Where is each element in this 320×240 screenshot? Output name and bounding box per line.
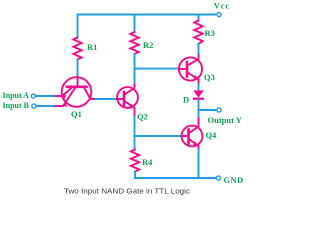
svg-text:Two Input NAND Gate in TTL Log: Two Input NAND Gate in TTL Logic — [64, 187, 190, 196]
wire R2 bottom to Q2 collector — [134, 54, 136, 85]
wire R4 bottom lead — [134, 172, 136, 179]
wire R2 Q2 node to Q3 base — [135, 68, 181, 70]
svg-text:Q3: Q3 — [204, 72, 215, 82]
resistor R4 — [131, 150, 139, 172]
wire output branch — [199, 109, 217, 111]
wire R1 bottom to Q1 base — [77, 60, 79, 79]
wire R1 top lead — [77, 15, 79, 38]
wire top rail Vcc — [78, 14, 217, 16]
Vcc terminal — [217, 12, 221, 16]
wire Input B to Q1 emitter2 — [36, 105, 56, 107]
input terminal A — [31, 94, 35, 98]
wire Q3 emitter to diode D — [198, 85, 200, 91]
wire Q2 emitter down to R4 — [134, 117, 136, 150]
diode D — [193, 90, 204, 98]
svg-text:R2: R2 — [143, 40, 153, 50]
wire ground rail — [135, 177, 216, 179]
transistor Q1 multi-emitter — [56, 77, 96, 107]
svg-text:R3: R3 — [205, 28, 215, 38]
wire Q4 emitter to ground rail — [198, 150, 200, 179]
svg-text:Q1: Q1 — [71, 109, 82, 119]
wire node to Q4 base — [135, 135, 182, 137]
transistor Q4 — [182, 119, 203, 150]
resistor R2 — [130, 32, 138, 54]
wire R3 top lead — [198, 15, 200, 21]
svg-text:Q4: Q4 — [206, 130, 218, 140]
svg-text:D: D — [183, 94, 189, 104]
svg-text:R1: R1 — [87, 42, 97, 52]
input terminal B — [32, 104, 36, 108]
svg-text:Input B: Input B — [3, 101, 30, 110]
svg-text:Output Y: Output Y — [208, 115, 242, 125]
svg-text:R4: R4 — [142, 157, 153, 167]
svg-text:Vcc: Vcc — [214, 1, 230, 11]
svg-text:Q2: Q2 — [137, 111, 148, 121]
transistor Q3 — [179, 56, 202, 85]
wire R2 top lead — [134, 15, 136, 33]
svg-text:Input A: Input A — [3, 91, 30, 100]
wire Input A to Q1 emitter1 — [36, 95, 56, 97]
output terminal Y — [217, 108, 221, 112]
wire Q1 collector to Q2 base — [96, 98, 118, 100]
resistor R1 — [73, 38, 81, 60]
wire diode to output node to Q4 collector — [198, 100, 200, 119]
wire R3 bottom to Q3 collector — [198, 44, 200, 56]
transistor Q2 — [117, 85, 138, 117]
ground terminal — [216, 176, 220, 180]
resistor R3 — [194, 21, 202, 44]
svg-text:GND: GND — [224, 175, 244, 185]
